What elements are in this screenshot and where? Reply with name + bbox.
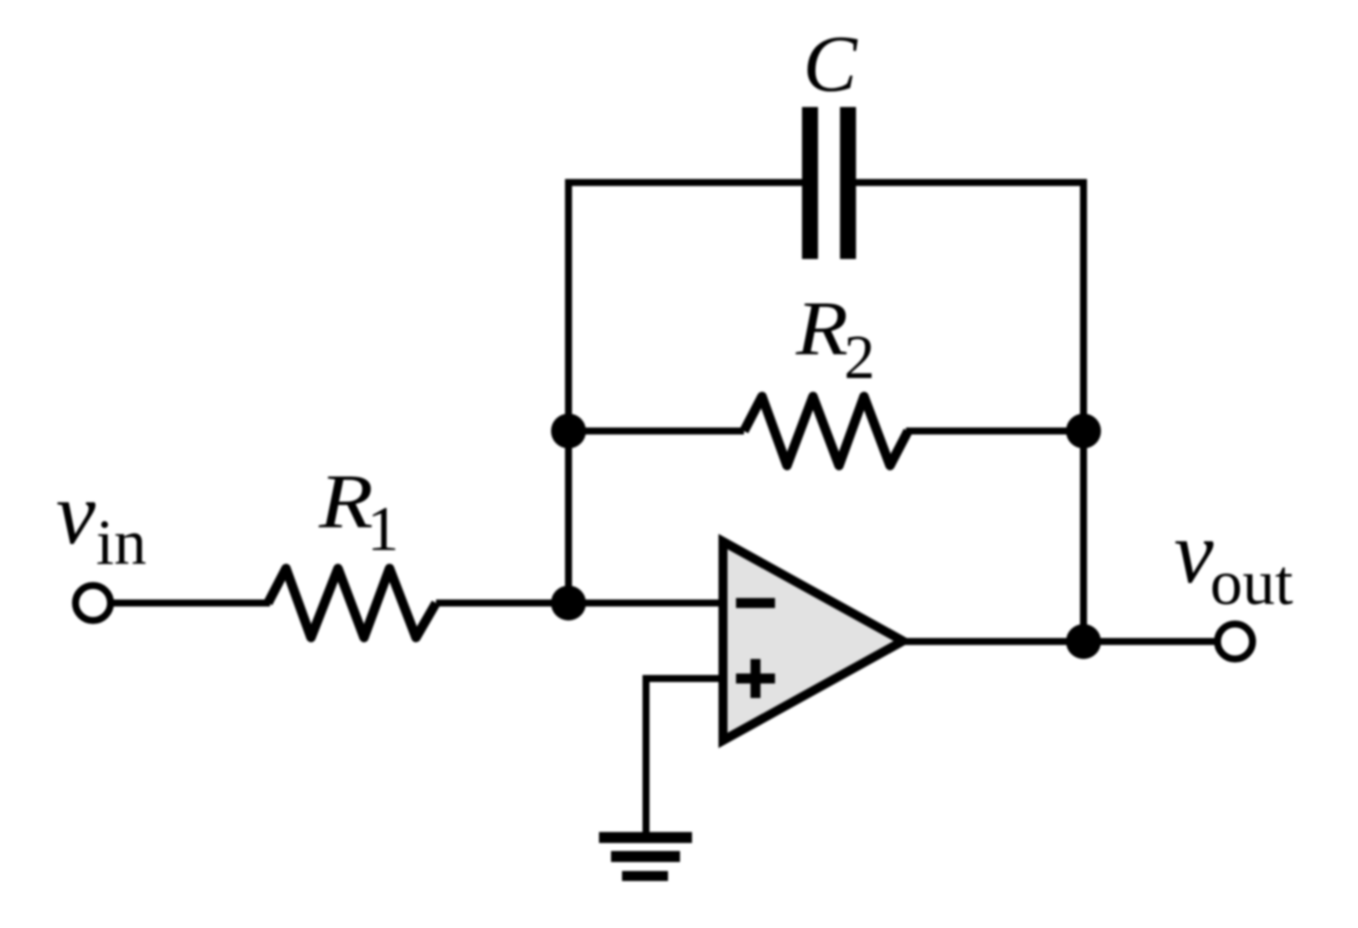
svg-text:in: in — [96, 507, 147, 579]
ground — [599, 832, 692, 881]
label R1 — [318, 459, 399, 564]
svg-text:2: 2 — [844, 324, 875, 392]
pin label plus — [736, 659, 775, 698]
wire — [569, 183, 803, 604]
label R2 — [795, 286, 875, 392]
wire — [569, 428, 745, 435]
svg-text:C: C — [803, 19, 858, 109]
node A (inverting input) — [551, 586, 586, 621]
wire — [646, 679, 723, 833]
node D (output) — [1066, 624, 1101, 659]
resistor R2 — [744, 397, 908, 466]
wire — [111, 600, 271, 607]
wire — [906, 428, 1084, 435]
node B (feedback left) — [551, 414, 586, 449]
capacitor C — [802, 107, 856, 259]
svg-text:R: R — [795, 286, 848, 371]
svg-text:R: R — [318, 459, 373, 544]
svg-text:out: out — [1210, 547, 1293, 619]
node C (feedback right) — [1066, 414, 1101, 449]
label v_out — [1174, 504, 1293, 619]
op-amp U1 — [723, 542, 903, 741]
svg-text:1: 1 — [367, 493, 399, 564]
svg-text:v: v — [1174, 504, 1214, 602]
wire — [856, 183, 1084, 642]
terminal Vin — [76, 586, 111, 621]
svg-text:v: v — [56, 465, 96, 563]
wire — [436, 600, 723, 607]
wire — [903, 638, 1217, 645]
resistor R1 — [268, 569, 436, 638]
pin label minus — [736, 598, 775, 608]
terminal Vout — [1218, 624, 1253, 659]
label v_in — [56, 465, 147, 579]
